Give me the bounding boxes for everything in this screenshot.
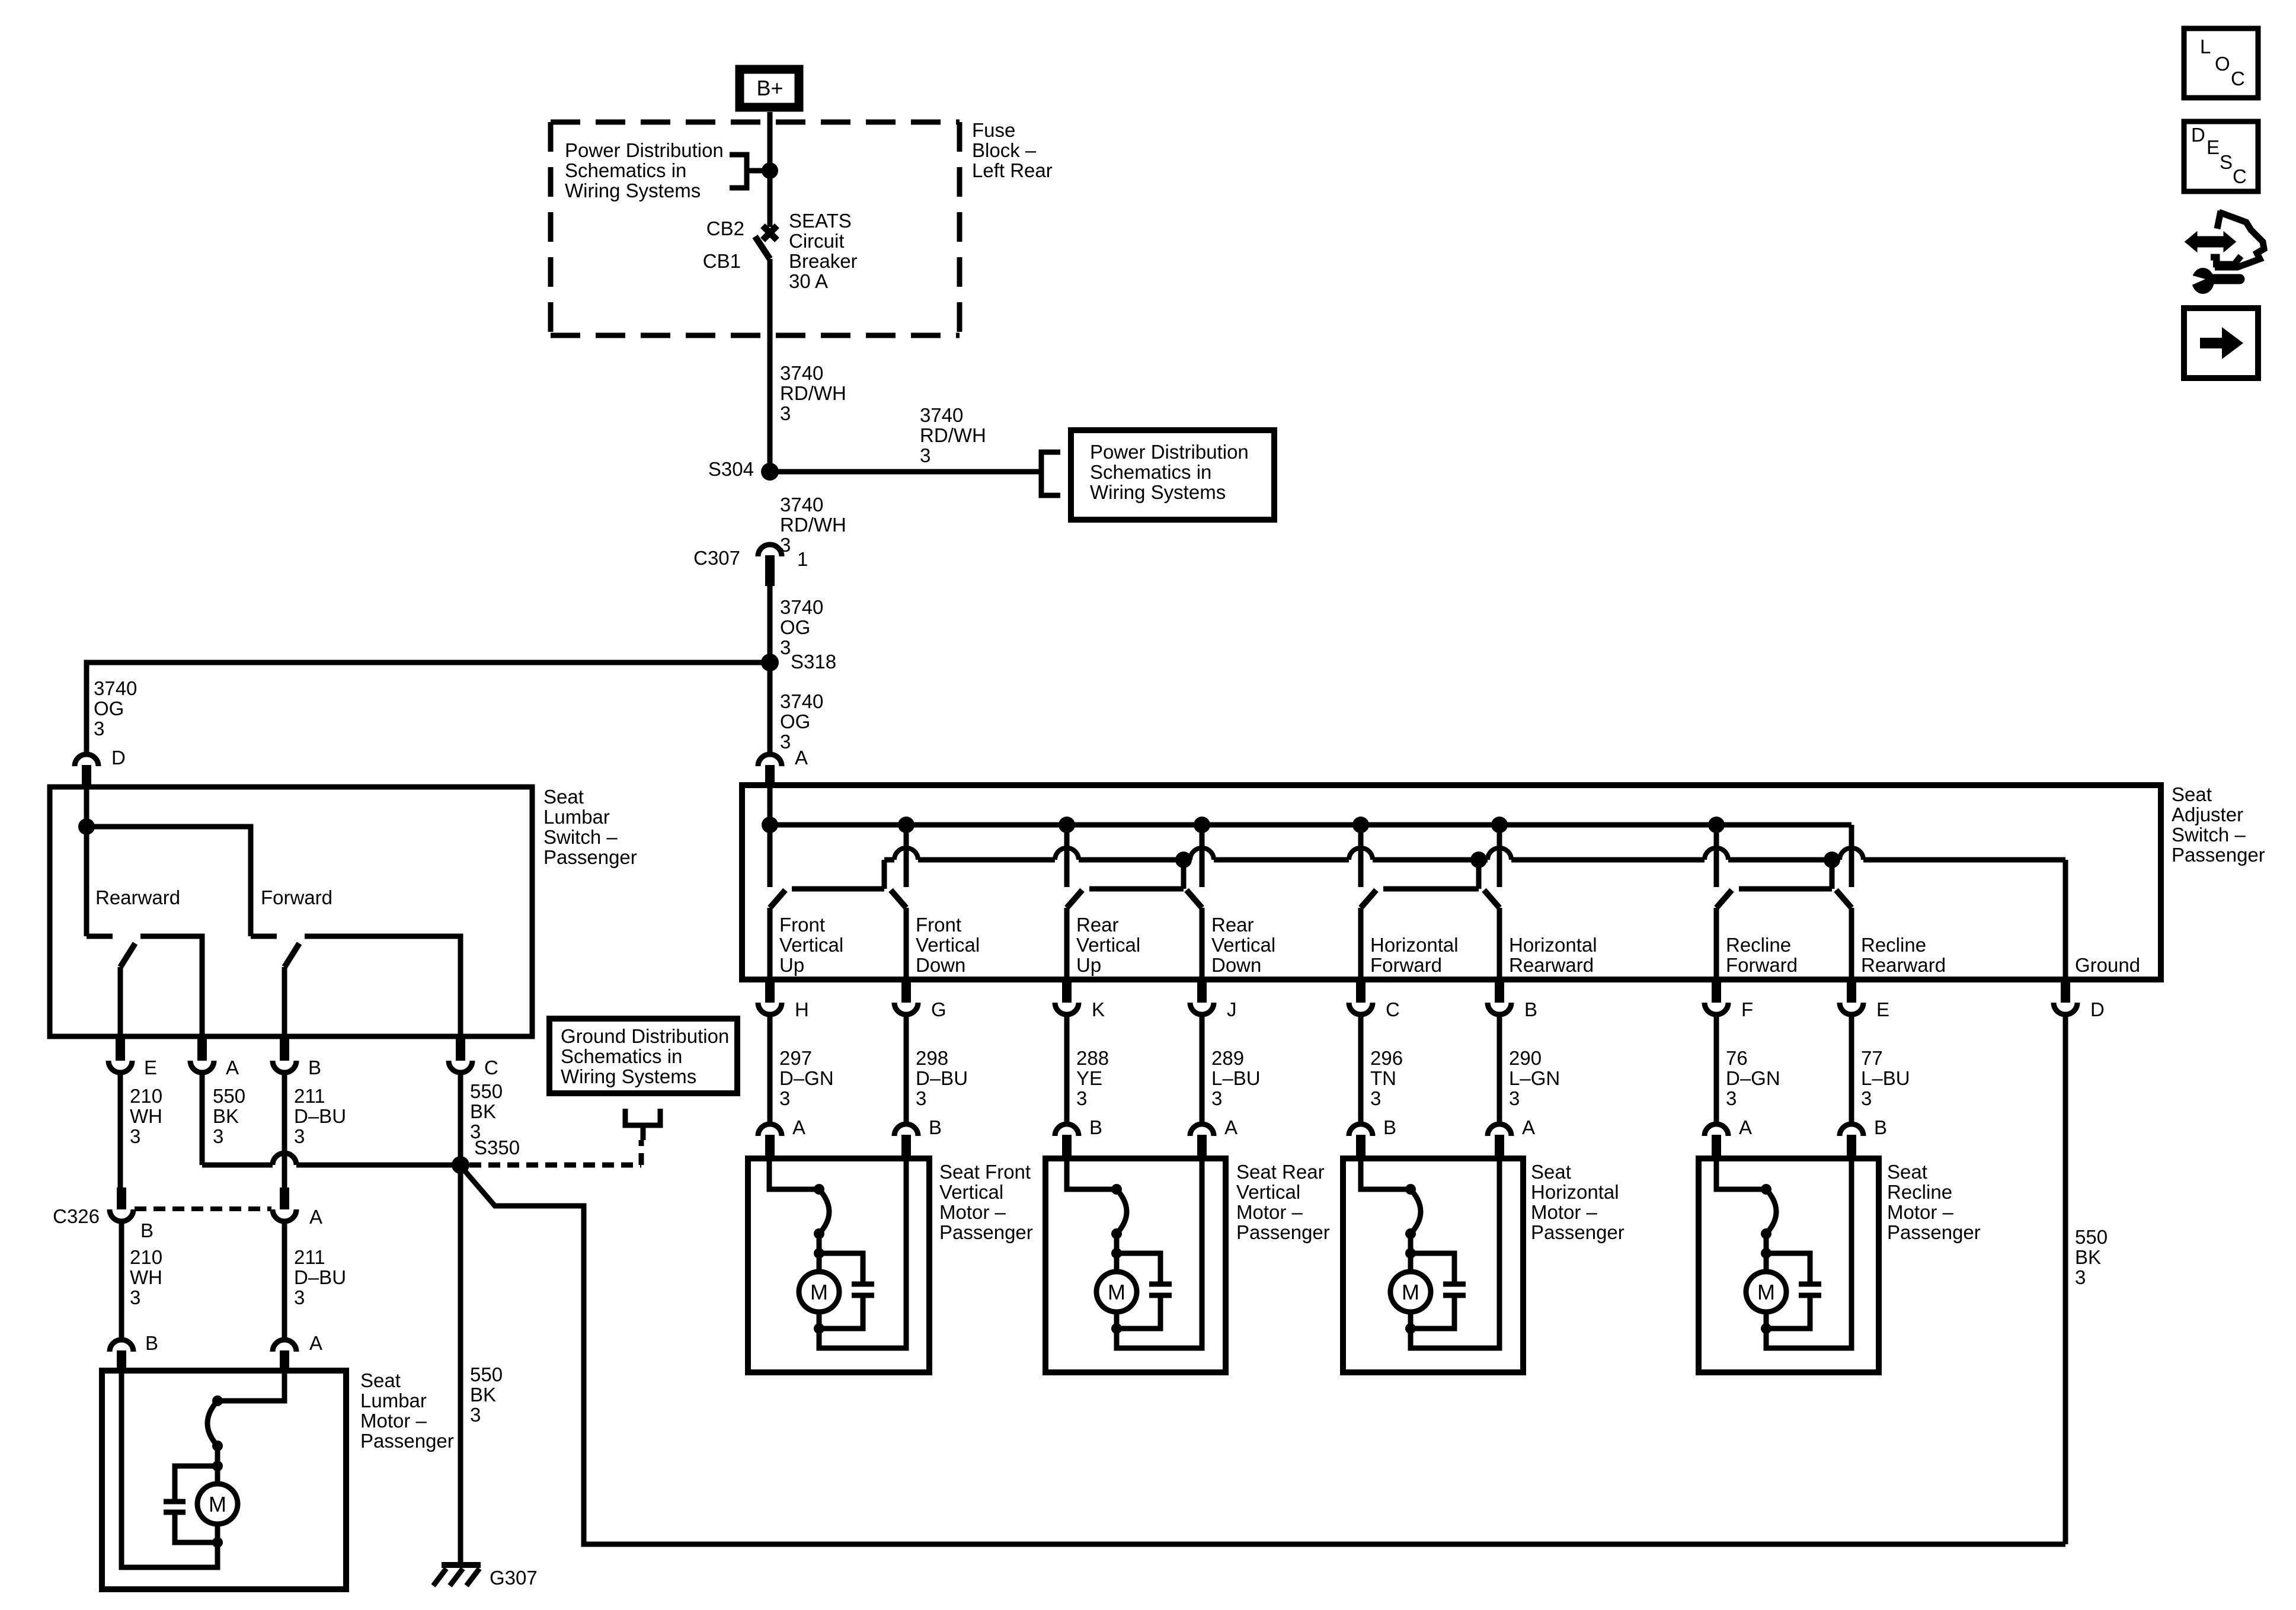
svg-text:L–GN: L–GN <box>1509 1067 1560 1089</box>
wire to forward contact <box>87 827 251 936</box>
connector pin B of adjuster switch <box>1488 1003 1511 1014</box>
svg-text:M: M <box>1757 1280 1775 1304</box>
wire pin D feed inside lumbar switch <box>84 789 89 936</box>
hop over 211 wire <box>273 1153 296 1165</box>
ground bus hop arc <box>894 848 918 860</box>
icon box next arrow <box>2184 308 2258 378</box>
fuse block dashed box right edge <box>957 122 962 335</box>
wire 210 WH pin E down <box>118 1073 123 1188</box>
svg-text:3: 3 <box>94 718 104 740</box>
junction on B+ wire <box>762 162 778 179</box>
wire 550 BK pin C to S350 to G307 <box>458 1073 463 1565</box>
power contact Horizontal Rearward <box>1497 825 1502 887</box>
svg-text:Passenger: Passenger <box>939 1221 1033 1243</box>
svg-text:RD/WH: RD/WH <box>780 382 846 404</box>
rearward output bar to pin A <box>140 936 202 1036</box>
svg-text:J: J <box>1227 998 1237 1020</box>
seat lumbar motor box <box>102 1371 346 1589</box>
svg-text:3: 3 <box>213 1125 223 1147</box>
wire pin in <box>1067 1158 1117 1189</box>
svg-text:Lumbar: Lumbar <box>543 806 610 828</box>
svg-text:210: 210 <box>130 1246 162 1268</box>
svg-text:K: K <box>1092 998 1105 1020</box>
wire S318 branch to lumbar switch <box>87 662 770 753</box>
motor box Seat Rear Vertical <box>1045 1158 1226 1372</box>
wire switch Horizontal Forward to pin <box>1358 908 1364 980</box>
motor M <box>1390 1272 1431 1312</box>
svg-text:F: F <box>1741 998 1753 1020</box>
connector pin E of lumbar switch <box>108 1061 132 1073</box>
wire switch Front Vertical Down to pin <box>904 908 909 980</box>
ground bus segment <box>1214 857 1349 863</box>
svg-text:B: B <box>145 1332 158 1354</box>
wire 77 L–BU <box>1849 1014 1854 1124</box>
svg-text:D–BU: D–BU <box>294 1266 346 1288</box>
ground contact drop and bar <box>1181 860 1187 889</box>
svg-text:3740: 3740 <box>94 677 137 699</box>
power bus junction x=2028 <box>1194 817 1210 833</box>
svg-text:G307: G307 <box>490 1567 538 1589</box>
connector pin B of motor <box>1349 1124 1373 1136</box>
svg-text:Wiring Systems: Wiring Systems <box>1090 481 1226 503</box>
svg-text:D–BU: D–BU <box>294 1105 346 1127</box>
seat lumbar switch box <box>50 787 532 1036</box>
svg-text:Seat: Seat <box>360 1369 401 1391</box>
wire S304 branch right <box>770 469 1041 475</box>
svg-text:OG: OG <box>780 616 810 638</box>
motor M <box>799 1272 839 1312</box>
icon vehicle with arrow and wrench <box>2186 233 2235 251</box>
wire pin in <box>1361 1158 1411 1189</box>
splice S350 <box>452 1156 469 1174</box>
svg-text:Vertical: Vertical <box>1236 1181 1300 1203</box>
svg-text:Passenger: Passenger <box>1531 1221 1625 1243</box>
fuse block dashed box bottom edge <box>551 333 960 338</box>
connector C326 pin B <box>110 1209 133 1221</box>
svg-text:550: 550 <box>213 1085 245 1107</box>
motor M lumbar <box>197 1484 238 1524</box>
svg-text:O: O <box>2215 53 2230 75</box>
svg-text:Horizontal: Horizontal <box>1509 934 1597 956</box>
svg-text:CB2: CB2 <box>706 217 744 239</box>
svg-text:Breaker: Breaker <box>789 250 858 272</box>
svg-text:Ground: Ground <box>2075 954 2140 976</box>
svg-text:D–GN: D–GN <box>779 1067 834 1089</box>
svg-text:Switch –: Switch – <box>543 826 618 848</box>
forward switch blade <box>284 943 299 967</box>
wire motor return to pin B <box>121 1371 218 1567</box>
svg-text:OG: OG <box>780 710 810 732</box>
ground bus junction <box>1470 852 1487 868</box>
svg-text:3740: 3740 <box>920 404 963 426</box>
capacitor connection top <box>175 1466 218 1502</box>
power contact Recline Forward <box>1714 825 1719 887</box>
ground bus segment <box>1728 857 1840 863</box>
svg-text:E: E <box>2207 136 2220 158</box>
svg-text:550: 550 <box>2075 1226 2108 1248</box>
svg-text:TN: TN <box>1370 1067 1396 1089</box>
svg-text:S304: S304 <box>708 458 754 480</box>
ground contact drop and bar <box>882 860 887 889</box>
svg-text:C: C <box>484 1057 498 1078</box>
svg-text:Rearward: Rearward <box>95 886 180 908</box>
svg-text:E: E <box>144 1057 157 1078</box>
svg-text:Schematics in: Schematics in <box>561 1045 682 1067</box>
svg-text:Down: Down <box>1211 954 1261 976</box>
connector pin B of motor <box>1840 1124 1863 1136</box>
capacitor connection <box>1411 1253 1454 1284</box>
svg-text:Circuit: Circuit <box>789 230 845 252</box>
power bus junction x=1299 <box>762 817 778 833</box>
svg-text:YE: YE <box>1076 1067 1102 1089</box>
svg-text:B: B <box>1089 1116 1102 1138</box>
svg-text:297: 297 <box>779 1047 812 1069</box>
svg-text:D: D <box>2090 998 2105 1020</box>
wire 288 YE <box>1064 1014 1070 1124</box>
power contact Horizontal Forward <box>1358 825 1364 887</box>
connector pin B of lumbar motor <box>110 1340 133 1352</box>
svg-text:A: A <box>792 1116 805 1138</box>
svg-text:Forward: Forward <box>1726 954 1798 976</box>
wire 297 D–GN <box>768 1014 773 1124</box>
svg-text:RD/WH: RD/WH <box>920 424 986 446</box>
svg-text:3: 3 <box>294 1125 305 1147</box>
svg-text:M: M <box>1402 1280 1419 1304</box>
ground bus segment <box>884 857 894 863</box>
svg-text:Seat: Seat <box>2172 783 2212 805</box>
svg-text:M: M <box>209 1492 226 1516</box>
ground bus junction <box>1824 852 1840 868</box>
svg-text:550: 550 <box>470 1080 503 1102</box>
wire 550 BK pin A to S350 <box>200 1073 205 1165</box>
svg-text:Schematics in: Schematics in <box>565 159 686 181</box>
power bus junction x=1529 <box>898 817 914 833</box>
connector pin A of motor <box>758 1124 782 1136</box>
wire motor return <box>1411 1158 1499 1348</box>
connector pin C of adjuster switch <box>1349 1003 1373 1014</box>
power contact Rear Vertical Down <box>1200 825 1205 887</box>
svg-text:3: 3 <box>1211 1087 1222 1109</box>
wire pin A inside lumbar motor <box>218 1371 284 1401</box>
svg-text:Recline: Recline <box>1726 934 1791 956</box>
svg-text:Motor –: Motor – <box>1236 1201 1303 1223</box>
svg-text:D: D <box>111 747 126 769</box>
svg-text:BK: BK <box>2075 1246 2101 1268</box>
wire switch Rear Vertical Up to pin <box>1064 908 1070 980</box>
motor brush curve <box>207 1401 218 1446</box>
svg-text:3: 3 <box>779 1087 790 1109</box>
icon box DESC <box>2184 121 2258 191</box>
svg-text:Front: Front <box>779 914 825 936</box>
bracket to power distribution box <box>1041 452 1060 495</box>
connector D of lumbar switch <box>75 754 98 766</box>
battery feed B+ box <box>740 69 799 107</box>
svg-text:298: 298 <box>916 1047 948 1069</box>
svg-text:1: 1 <box>797 548 808 570</box>
circuit breaker blade <box>755 236 770 259</box>
motor bottom lead <box>215 1524 220 1542</box>
power bus junction x=1800 <box>1059 817 1075 833</box>
svg-text:Up: Up <box>1076 954 1101 976</box>
svg-text:WH: WH <box>130 1105 162 1127</box>
svg-text:B: B <box>140 1219 154 1241</box>
svg-text:C: C <box>2233 165 2247 187</box>
svg-text:Front: Front <box>916 914 961 936</box>
svg-text:Passenger: Passenger <box>360 1430 454 1452</box>
capacitor connection <box>819 1253 863 1284</box>
wire 550 BK 3 ground from pin D <box>2063 1014 2068 1544</box>
ground bus hop arc <box>1349 848 1373 860</box>
wire switch Horizontal Rearward to pin <box>1497 908 1502 980</box>
circuit breaker CB contact X <box>763 226 777 240</box>
wire C307 to S318 to A <box>768 586 773 754</box>
power contact Recline Rearward <box>1849 825 1854 887</box>
svg-text:C307: C307 <box>693 547 740 569</box>
bracket to power distribution note <box>730 155 747 188</box>
svg-text:Vertical: Vertical <box>916 934 980 956</box>
connector pin A of lumbar motor <box>273 1340 296 1352</box>
svg-text:289: 289 <box>1211 1047 1244 1069</box>
ground wire to pin D <box>2063 860 2068 980</box>
svg-text:Seat: Seat <box>1531 1161 1571 1183</box>
connector C326 dashed link <box>135 1206 271 1211</box>
switch blade Recline Rearward <box>1836 890 1851 908</box>
power contact Front Vertical Up <box>768 825 773 887</box>
ground bus segment <box>1373 857 1488 863</box>
svg-text:3: 3 <box>470 1404 481 1426</box>
connector pin K of adjuster switch <box>1055 1003 1079 1014</box>
svg-text:Seat: Seat <box>543 786 584 808</box>
svg-text:B: B <box>1524 998 1537 1020</box>
capacitor C <box>1799 1282 1821 1287</box>
svg-text:S: S <box>2220 151 2233 173</box>
svg-text:A: A <box>1522 1116 1535 1138</box>
svg-text:A: A <box>309 1332 322 1354</box>
capacitor C <box>1149 1282 1172 1287</box>
svg-text:Left Rear: Left Rear <box>972 159 1053 181</box>
svg-text:L–BU: L–BU <box>1861 1067 1910 1089</box>
svg-text:3: 3 <box>130 1125 140 1147</box>
svg-text:Vertical: Vertical <box>1211 934 1275 956</box>
svg-text:C: C <box>2231 68 2245 89</box>
svg-text:RD/WH: RD/WH <box>780 514 846 536</box>
forward output bar to pin C <box>305 936 461 1036</box>
svg-text:E: E <box>1876 998 1889 1020</box>
svg-text:Schematics in: Schematics in <box>1090 461 1211 483</box>
capacitor C <box>852 1282 874 1287</box>
wire motor return <box>819 1158 906 1348</box>
svg-text:BK: BK <box>470 1100 496 1122</box>
svg-text:3740: 3740 <box>780 362 823 384</box>
connector pin H of adjuster switch <box>758 1003 782 1014</box>
power bus junction x=2530 <box>1491 817 1508 833</box>
dashed wire S350 to ground distribution bracket <box>469 1163 641 1168</box>
svg-text:B: B <box>1383 1116 1396 1138</box>
svg-text:Vertical: Vertical <box>939 1181 1003 1203</box>
svg-text:290: 290 <box>1509 1047 1542 1069</box>
motor M <box>1746 1272 1786 1312</box>
capacitor C lumbar <box>164 1499 186 1505</box>
motor brush curve <box>1766 1189 1776 1234</box>
svg-text:3: 3 <box>780 636 791 658</box>
switch blade Front Vertical Up <box>770 890 785 908</box>
svg-text:3: 3 <box>1861 1087 1872 1109</box>
svg-text:288: 288 <box>1076 1047 1109 1069</box>
connector pin A of lumbar switch <box>190 1061 214 1073</box>
switch blade Horizontal Rearward <box>1484 890 1499 908</box>
svg-text:Seat: Seat <box>1887 1161 1927 1183</box>
connector C307 pin 1 <box>758 545 782 556</box>
svg-text:S350: S350 <box>474 1137 520 1158</box>
ground bus segment <box>918 857 1055 863</box>
connector pin A of motor <box>1488 1124 1511 1136</box>
connector pin F of adjuster switch <box>1705 1003 1728 1014</box>
svg-text:3: 3 <box>130 1286 140 1308</box>
svg-text:Motor –: Motor – <box>939 1201 1006 1223</box>
svg-text:SEATS: SEATS <box>789 210 852 232</box>
connector pin B of motor <box>894 1124 918 1136</box>
svg-text:M: M <box>1108 1280 1125 1304</box>
svg-text:A: A <box>795 747 808 769</box>
motor box Seat Recline <box>1699 1158 1879 1372</box>
svg-text:3: 3 <box>780 402 791 424</box>
ground bus hop arc <box>1055 848 1079 860</box>
svg-text:3: 3 <box>1370 1087 1381 1109</box>
wire 290 L–GN <box>1497 1014 1502 1124</box>
wire motor return <box>1766 1158 1851 1348</box>
svg-text:210: 210 <box>130 1085 162 1107</box>
svg-text:A: A <box>1739 1116 1752 1138</box>
note box Power Distribution Schematics in Wiring Systems <box>1071 430 1274 520</box>
svg-text:3740: 3740 <box>780 596 823 618</box>
wire to motor <box>215 1446 220 1484</box>
wire 298 D–BU <box>904 1014 909 1124</box>
wire switch Rear Vertical Down to pin <box>1200 908 1205 980</box>
svg-text:Vertical: Vertical <box>1076 934 1140 956</box>
svg-text:Down: Down <box>916 954 965 976</box>
svg-text:3: 3 <box>916 1087 926 1109</box>
wire B+ to breaker <box>768 112 773 227</box>
wire switch Recline Forward to pin <box>1714 908 1719 980</box>
svg-text:3: 3 <box>920 444 930 466</box>
svg-text:3740: 3740 <box>780 690 823 712</box>
fuse block dashed box left edge <box>548 122 554 335</box>
svg-text:3: 3 <box>1726 1087 1737 1109</box>
wire 211 D-BU pin B down <box>282 1073 287 1188</box>
wire 289 L–BU <box>1200 1014 1205 1124</box>
power bus junction x=2296 <box>1352 817 1369 833</box>
svg-text:M: M <box>810 1280 828 1304</box>
svg-text:Recline: Recline <box>1861 934 1926 956</box>
svg-text:A: A <box>309 1206 322 1228</box>
svg-text:CB1: CB1 <box>703 250 741 272</box>
motor box Seat Horizontal <box>1343 1158 1523 1372</box>
svg-text:3: 3 <box>1076 1087 1087 1109</box>
ground return wire to S350 <box>462 1168 2065 1544</box>
svg-text:3: 3 <box>294 1286 305 1308</box>
svg-text:Motor –: Motor – <box>1531 1201 1598 1223</box>
wire 211 D-BU below C326 <box>282 1221 287 1339</box>
svg-text:Passenger: Passenger <box>2172 844 2265 866</box>
svg-text:Seat Rear: Seat Rear <box>1236 1161 1325 1183</box>
wire pin A feed inside <box>768 785 773 825</box>
svg-text:3: 3 <box>780 731 791 753</box>
rearward switch blade <box>120 943 135 967</box>
svg-text:D–BU: D–BU <box>916 1067 968 1089</box>
motor box Seat Front Vertical <box>748 1158 929 1372</box>
svg-text:Block –: Block – <box>972 139 1037 161</box>
capacitor connection <box>1117 1253 1160 1284</box>
svg-text:Rearward: Rearward <box>1509 954 1594 976</box>
connector C326 pin A <box>273 1209 296 1221</box>
wire pin in <box>769 1158 819 1189</box>
svg-text:B: B <box>308 1057 321 1078</box>
wire to pin E <box>118 967 123 1036</box>
wire pin in <box>1716 1158 1766 1189</box>
svg-text:Vertical: Vertical <box>779 934 843 956</box>
motor brush curve <box>819 1189 829 1234</box>
capacitor C <box>1443 1282 1466 1287</box>
capacitor connection bottom <box>175 1512 218 1542</box>
svg-text:Forward: Forward <box>261 886 332 908</box>
wrench <box>2211 274 2240 284</box>
svg-text:Wiring Systems: Wiring Systems <box>565 180 701 201</box>
connector pin B of motor <box>1055 1124 1079 1136</box>
splice S318 <box>761 654 779 671</box>
svg-text:D: D <box>2191 124 2205 146</box>
wire 296 TN <box>1358 1014 1364 1124</box>
switch blade Recline Forward <box>1716 890 1732 908</box>
ground bus segment <box>1079 857 1190 863</box>
power bus in switch <box>770 822 1851 828</box>
svg-text:3: 3 <box>1509 1087 1520 1109</box>
svg-text:Horizontal: Horizontal <box>1370 934 1459 956</box>
svg-text:A: A <box>1224 1116 1237 1138</box>
rearward switch contact <box>87 934 113 939</box>
svg-text:B: B <box>1874 1116 1887 1138</box>
junction in lumbar switch <box>78 818 95 835</box>
ground contact drop and bar <box>1830 860 1835 889</box>
svg-text:Ground Distribution: Ground Distribution <box>561 1025 729 1047</box>
svg-text:B: B <box>929 1116 942 1138</box>
svg-text:WH: WH <box>130 1266 162 1288</box>
connector pin B of lumbar switch <box>273 1061 296 1073</box>
svg-text:296: 296 <box>1370 1047 1403 1069</box>
note box Ground Distribution Schematics in Wiring Systems <box>549 1019 737 1093</box>
icon box LOC <box>2184 28 2258 98</box>
svg-text:Wiring Systems: Wiring Systems <box>561 1065 696 1087</box>
ground G307 symbol <box>442 1562 481 1568</box>
svg-text:OG: OG <box>94 697 124 719</box>
connector pin A of motor <box>1190 1124 1214 1136</box>
motor brush curve <box>1411 1189 1421 1234</box>
svg-text:77: 77 <box>1861 1047 1883 1069</box>
svg-text:Rear: Rear <box>1076 914 1119 936</box>
svg-text:Motor –: Motor – <box>360 1410 427 1432</box>
ground contact drop and bar <box>1476 860 1482 889</box>
svg-text:211: 211 <box>294 1085 325 1107</box>
connector A of adjuster switch <box>758 754 782 766</box>
svg-text:Switch –: Switch – <box>2172 824 2246 846</box>
svg-text:H: H <box>795 998 809 1020</box>
svg-text:A: A <box>226 1057 239 1078</box>
svg-text:Recline: Recline <box>1887 1181 1952 1203</box>
power bus junction x=2896 <box>1708 817 1725 833</box>
svg-text:Motor –: Motor – <box>1887 1201 1954 1223</box>
seat adjuster switch box <box>742 785 2161 980</box>
svg-text:Up: Up <box>779 954 804 976</box>
svg-text:L–BU: L–BU <box>1211 1067 1261 1089</box>
